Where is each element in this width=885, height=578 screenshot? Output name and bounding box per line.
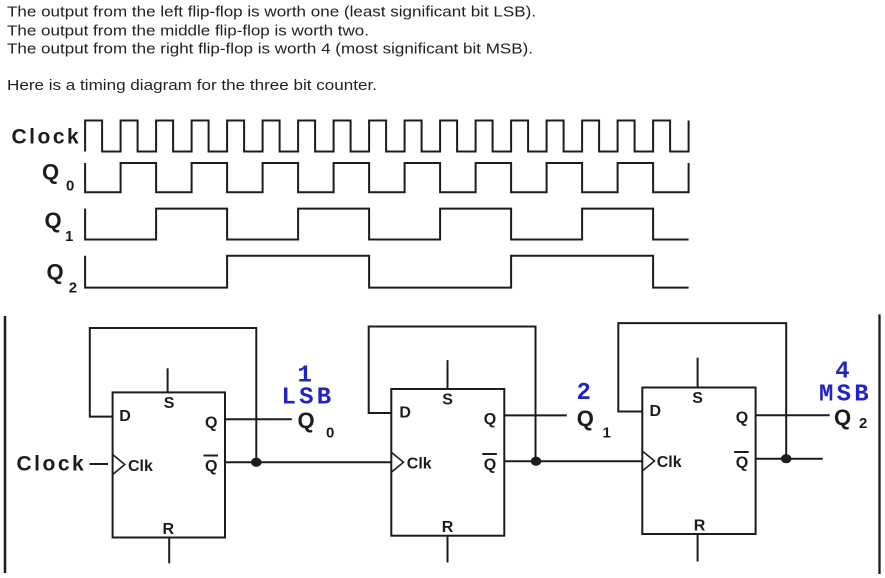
U1 pin Qbar label — [204, 456, 219, 475]
svg-text:Q: Q — [484, 411, 496, 428]
svg-text:Q: Q — [736, 455, 748, 472]
svg-text:Q: Q — [47, 260, 64, 285]
svg-text:0: 0 — [326, 425, 334, 442]
Q0 waveform — [85, 163, 689, 192]
svg-text:R: R — [442, 519, 454, 536]
flip-flop U2 box — [391, 389, 504, 536]
svg-text:1: 1 — [603, 425, 611, 442]
svg-text:2: 2 — [69, 279, 77, 296]
svg-text:The output from the right flip: The output from the right flip-flop is w… — [7, 41, 533, 58]
U1 junction dot — [251, 458, 262, 467]
svg-text:Clk: Clk — [657, 454, 682, 471]
svg-text:Here is a timing diagram for t: Here is a timing diagram for the three b… — [7, 77, 377, 94]
U2 Qbar wire to U3 clk — [504, 460, 642, 462]
flip-flop U3 box — [642, 388, 755, 535]
U2 feedback wire D to Qbar — [369, 327, 536, 462]
label Q0 output — [298, 408, 335, 442]
svg-text:Q: Q — [736, 410, 748, 427]
U2 pin Qbar label — [482, 454, 497, 474]
svg-text:Q: Q — [42, 159, 59, 184]
svg-text:Clock: Clock — [12, 126, 82, 149]
svg-text:D: D — [650, 403, 662, 420]
U2 S stub — [447, 360, 449, 389]
U2 clk triangle — [391, 452, 403, 472]
svg-text:Clk: Clk — [128, 458, 153, 475]
svg-text:Clock: Clock — [17, 453, 87, 476]
U3 feedback wire D to Qbar — [618, 323, 786, 459]
svg-text:2: 2 — [859, 415, 867, 432]
U1 feedback wire D to Qbar — [90, 328, 256, 462]
U2 Q output wire — [504, 414, 567, 416]
svg-text:2: 2 — [577, 380, 595, 407]
svg-text:The output from the middle fli: The output from the middle flip-flop is … — [7, 23, 369, 40]
label Q1 (timing) — [45, 208, 74, 245]
label Q1 output — [577, 406, 611, 442]
svg-text:Q: Q — [298, 408, 315, 433]
svg-text:Q: Q — [577, 406, 594, 431]
U1 R stub — [168, 538, 170, 564]
svg-text:Q: Q — [484, 457, 496, 474]
svg-text:The output from the left flip-: The output from the left flip-flop is wo… — [7, 3, 536, 20]
svg-text:Clk: Clk — [407, 456, 432, 473]
Q1 waveform — [85, 209, 689, 240]
U1 Qbar wire to U2 clk — [225, 461, 391, 463]
svg-text:Q: Q — [45, 208, 62, 233]
svg-text:R: R — [694, 518, 706, 535]
left frame border — [4, 316, 7, 573]
svg-text:Q: Q — [205, 415, 217, 432]
flip-flop U1 box — [113, 392, 225, 537]
U1 clk triangle — [113, 455, 125, 475]
U3 junction dot — [781, 454, 792, 463]
U3 R stub — [697, 534, 699, 562]
Q2 waveform — [85, 256, 689, 288]
U2 R stub — [447, 536, 449, 563]
label Q2 output — [834, 405, 867, 432]
U3 S stub — [697, 358, 699, 388]
U2 junction dot — [531, 457, 542, 466]
U3 Q output wire — [756, 414, 830, 416]
svg-text:1: 1 — [65, 228, 73, 245]
wire clock to FF1 — [90, 463, 109, 465]
svg-text:D: D — [119, 408, 131, 425]
svg-text:S: S — [442, 392, 453, 409]
svg-text:Q: Q — [205, 458, 217, 475]
label Q0 (timing) — [42, 159, 74, 194]
svg-text:S: S — [164, 395, 175, 412]
svg-text:Q: Q — [834, 405, 851, 430]
svg-text:S: S — [692, 390, 703, 407]
U1 S stub — [167, 368, 169, 392]
U3 pin Qbar label — [734, 452, 749, 472]
svg-text:D: D — [399, 405, 411, 422]
U1 Q output wire — [225, 418, 292, 420]
svg-text:0: 0 — [66, 178, 74, 195]
label Q2 (timing) — [47, 260, 78, 297]
U3 Qbar output stub — [756, 458, 823, 460]
clock waveform — [85, 121, 689, 152]
svg-text:R: R — [163, 521, 175, 538]
U3 clk triangle — [642, 451, 654, 471]
right frame border — [878, 314, 880, 574]
